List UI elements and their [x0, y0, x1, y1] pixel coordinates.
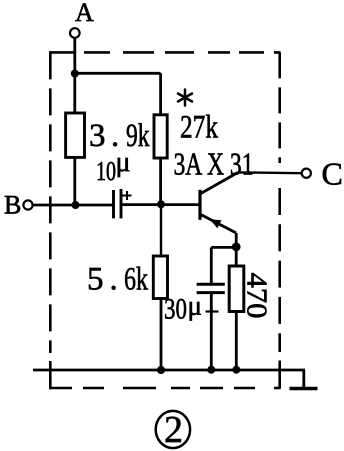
terminal B open circle	[23, 200, 32, 209]
svg-text:10: 10	[96, 156, 116, 186]
dashed enclosure box left	[49, 52, 52, 389]
label 470 (rotated)	[241, 273, 273, 319]
svg-text:6k: 6k	[124, 262, 148, 298]
figure number circle	[156, 411, 190, 448]
svg-text:5: 5	[87, 262, 104, 298]
junction node at A rail	[71, 70, 79, 78]
label 3.9k	[89, 118, 150, 154]
wire down to capacitor 30u	[210, 247, 213, 284]
label 27k	[180, 110, 218, 146]
terminal label B	[4, 191, 21, 220]
svg-text:μ: μ	[116, 147, 131, 178]
wire resistor 5.6k to ground rail	[160, 299, 163, 371]
label 30u	[164, 291, 202, 326]
dashed enclosure box right	[278, 52, 281, 388]
emitter junction node	[232, 243, 241, 252]
capacitor 30u top plate	[197, 283, 225, 286]
junction node rail/470	[232, 366, 240, 374]
resistor 5.6k body	[153, 256, 167, 299]
terminal C open circle	[302, 169, 311, 178]
svg-text:μ: μ	[188, 291, 202, 321]
figure number 2	[164, 409, 183, 451]
wire resistor 470 to ground rail	[235, 312, 238, 371]
dashed enclosure box bottom	[49, 387, 281, 390]
resistor 27k body	[154, 115, 167, 158]
terminal label A	[75, 0, 94, 27]
ground bar	[290, 387, 318, 390]
svg-text:3: 3	[89, 118, 106, 154]
wire capacitor to base node	[121, 203, 199, 206]
svg-text:470: 470	[241, 273, 273, 319]
wire base node down to resistor 5.6k	[160, 204, 162, 256]
wire A-node to R2 branch (horizontal)	[75, 72, 161, 75]
capacitor 30u bottom plate	[197, 291, 225, 294]
svg-text:3A X 31: 3A X 31	[174, 145, 254, 181]
label 3AX31	[174, 145, 254, 181]
base junction node	[157, 200, 165, 208]
transistor Q1 base bar	[198, 190, 201, 220]
terminal A open circle	[70, 28, 80, 38]
label 5.6k	[87, 262, 148, 298]
wire resistor 3.9k to B rail	[73, 157, 76, 205]
wire resistor 27k to base node	[159, 158, 162, 204]
resistor 470 body	[229, 266, 244, 312]
transistor emitter diagonal	[201, 215, 236, 234]
wire capacitor 30u to ground rail	[210, 293, 213, 370]
emitter arrow (PNP, pointing to base)	[210, 219, 222, 228]
ground stem wire	[302, 370, 305, 389]
emitter wire down to node	[235, 233, 238, 247]
wire B to capacitor C1	[33, 204, 114, 207]
wire node down to resistor 3.9k	[73, 74, 76, 114]
capacitor 30u polarity plus	[206, 310, 219, 312]
bottom ground rail wire	[33, 369, 305, 372]
collector wire to terminal C	[238, 171, 302, 174]
svg-text:.: .	[110, 262, 118, 298]
svg-text:27k: 27k	[180, 110, 218, 146]
dashed enclosure box top	[49, 51, 281, 54]
svg-text:2: 2	[164, 409, 183, 451]
wire emitter node to bypass cap branch	[211, 246, 236, 249]
label 10u	[96, 147, 131, 186]
svg-text:A: A	[75, 0, 94, 27]
wire emitter node down to resistor 470	[235, 247, 238, 266]
wire from terminal A down to node	[73, 38, 76, 74]
capacitor polarity plus	[123, 191, 132, 200]
capacitor 10u left plate	[112, 190, 115, 218]
transistor collector diagonal	[201, 172, 238, 193]
junction node on B wire (R1 bottom)	[72, 201, 80, 209]
capacitor 10u right plate	[120, 189, 123, 218]
svg-text:C: C	[322, 156, 343, 192]
wire from A rail down to resistor 27k	[159, 73, 162, 115]
junction node rail/5.6k	[157, 366, 165, 374]
terminal label C	[322, 156, 343, 192]
junction node rail/30u	[207, 366, 215, 374]
svg-text:B: B	[4, 191, 21, 220]
resistor 3.9k body	[66, 113, 85, 157]
asterisk mark	[178, 90, 192, 106]
